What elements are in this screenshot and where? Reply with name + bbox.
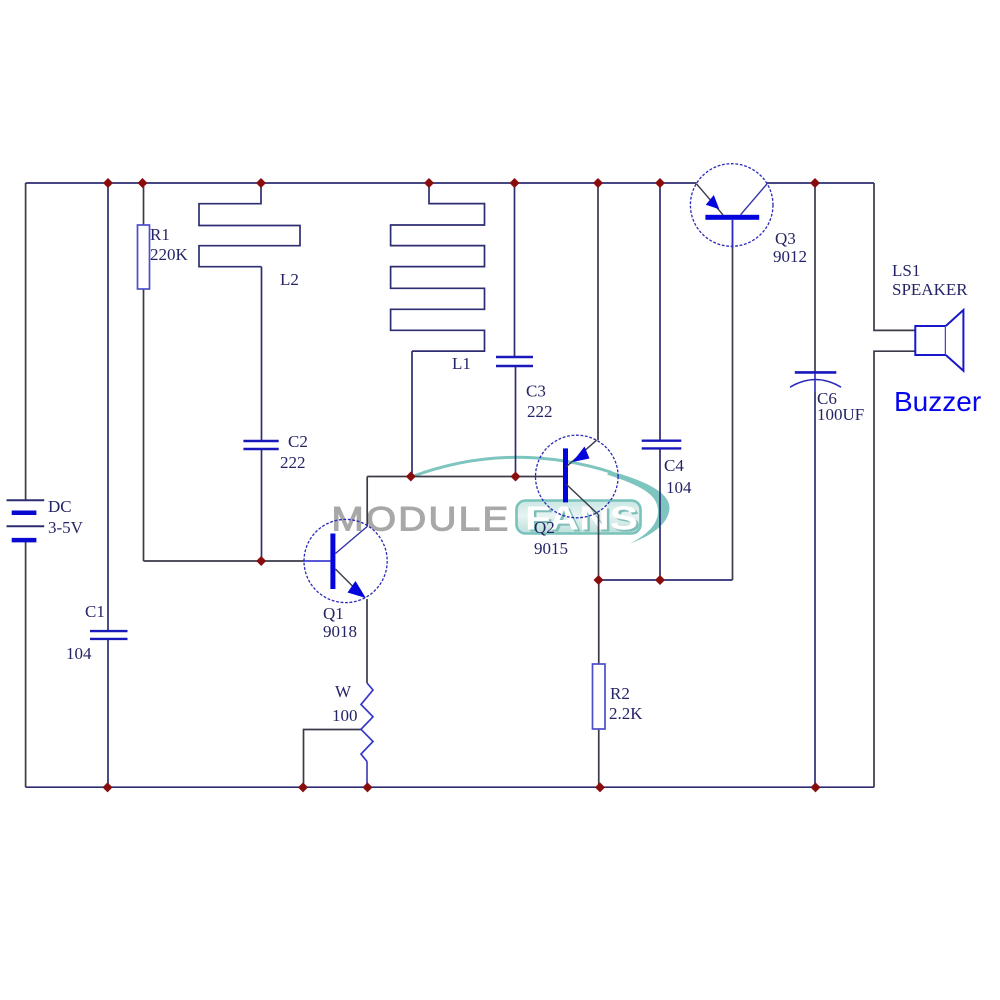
svg-text:C2: C2 <box>288 432 308 451</box>
wire C4 top lead <box>659 183 661 441</box>
svg-text:9015: 9015 <box>534 539 568 558</box>
potentiometer W zigzag <box>361 683 373 762</box>
svg-text:DC: DC <box>48 497 72 516</box>
battery DC 3-5V <box>7 500 45 540</box>
wire C2 to base node <box>261 449 263 561</box>
wire L2 to C2 <box>261 267 263 441</box>
wire R1 top lead <box>143 183 145 225</box>
inductor L2 meander <box>199 183 300 267</box>
svg-text:9018: 9018 <box>323 622 357 641</box>
svg-text:SPEAKER: SPEAKER <box>892 280 968 299</box>
svg-text:C1: C1 <box>85 602 105 621</box>
watermark MODULEFANS swoosh crescent <box>607 471 670 544</box>
svg-text:C4: C4 <box>664 456 684 475</box>
capacitor C3 <box>496 357 533 366</box>
wire top rail left segment <box>26 182 697 184</box>
wire node row y=580 <box>599 579 733 581</box>
wire Q3 base vertical <box>732 220 734 580</box>
svg-text:222: 222 <box>280 453 306 472</box>
wire C4 bottom lead <box>659 448 661 580</box>
capacitor C6 electrolytic <box>790 372 841 392</box>
svg-text:Q2: Q2 <box>534 518 555 537</box>
svg-text:2.2K: 2.2K <box>609 704 643 723</box>
wire Q2 collector vertical <box>598 514 600 580</box>
svg-text:222: 222 <box>527 402 553 421</box>
wire C6 bottom lead <box>814 392 816 787</box>
watermark MODULEFANS swoosh thin arc <box>411 457 612 477</box>
transistor Q2 9015 <box>536 435 619 518</box>
speaker LS1 symbol <box>915 310 963 371</box>
svg-text:Buzzer: Buzzer <box>894 386 981 417</box>
svg-text:MODULE: MODULE <box>332 501 511 539</box>
wire W to bottom rail <box>366 762 368 788</box>
wire bottom rail <box>26 786 874 788</box>
wire C1 branch upper <box>107 183 109 631</box>
svg-text:LS1: LS1 <box>892 261 920 280</box>
svg-text:R1: R1 <box>150 225 170 244</box>
wire Q2 emitter vertical <box>597 183 599 440</box>
svg-text:R2: R2 <box>610 684 630 703</box>
wire top rail right segment <box>767 182 874 184</box>
svg-text:L2: L2 <box>280 270 299 289</box>
svg-text:Q3: Q3 <box>775 229 796 248</box>
capacitor C1 <box>90 631 128 639</box>
capacitor C2 <box>243 441 278 449</box>
wire R1 bottom lead down <box>143 289 145 561</box>
svg-text:W: W <box>335 682 352 701</box>
wire C3 top lead <box>514 183 516 357</box>
wire node row y=476 <box>367 476 565 478</box>
svg-text:100: 100 <box>332 706 358 725</box>
wire Q1 emitter to W <box>366 599 368 683</box>
svg-text:3-5V: 3-5V <box>48 518 84 537</box>
wire R2 bottom lead <box>598 729 600 787</box>
resistor R1 <box>138 225 150 289</box>
wire R2 top lead <box>598 580 600 664</box>
capacitor C4 <box>642 441 682 449</box>
svg-text:C3: C3 <box>526 382 546 401</box>
wire W wiper arm <box>304 730 362 788</box>
wire Q1 collector vertical <box>366 477 368 527</box>
svg-text:Q1: Q1 <box>323 604 344 623</box>
wire C6 top lead <box>814 183 816 372</box>
wire speaker top branch <box>874 183 915 330</box>
svg-text:L1: L1 <box>452 354 471 373</box>
transistor Q1 9018 <box>304 519 388 602</box>
resistor R2 <box>593 664 606 729</box>
transistor Q3 9012 <box>690 164 773 248</box>
wire Q1 base horizontal <box>144 560 304 562</box>
wire C1 branch lower <box>107 639 109 787</box>
svg-text:9012: 9012 <box>773 247 807 266</box>
wire C3 bottom lead <box>515 366 517 477</box>
svg-text:100UF: 100UF <box>817 405 864 424</box>
inductor L1 meander <box>391 183 485 351</box>
wire battery to bottom rail <box>25 540 27 787</box>
svg-text:220K: 220K <box>150 245 189 264</box>
svg-text:104: 104 <box>66 644 92 663</box>
wire L1 to node <box>411 351 413 476</box>
watermark FANS tile <box>517 501 641 534</box>
svg-text:104: 104 <box>666 478 692 497</box>
wire left rail to battery <box>25 183 27 500</box>
wire speaker bottom branch <box>874 351 915 787</box>
